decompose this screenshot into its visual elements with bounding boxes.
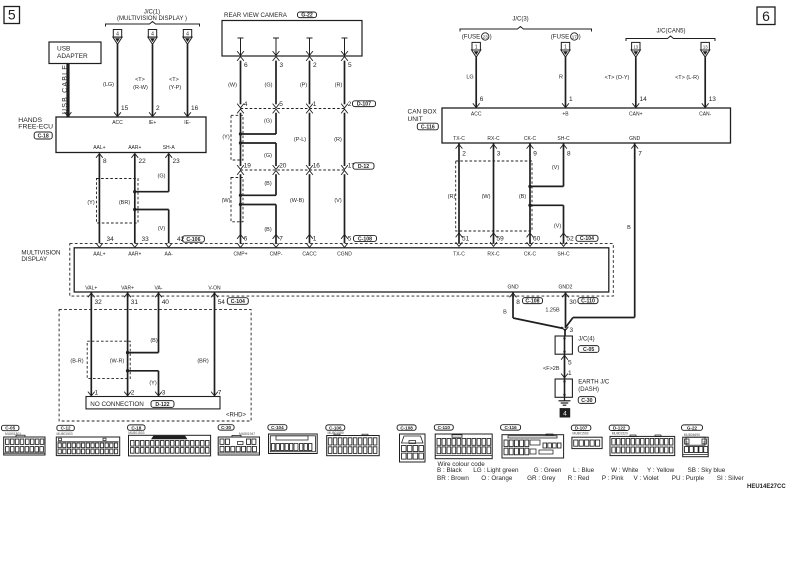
svg-text:9: 9 — [533, 151, 537, 158]
J/C(3) connector pin 1 right — [561, 42, 569, 50]
svg-text:(V): (V) — [552, 165, 560, 171]
svg-text:8: 8 — [516, 299, 520, 306]
svg-text:R : Red: R : Red — [568, 475, 590, 482]
svg-text:(G): (G) — [264, 119, 272, 125]
svg-text:C-18: C-18 — [131, 425, 141, 430]
svg-text:SI : Silver: SI : Silver — [717, 475, 744, 482]
connector C-106 detail — [326, 425, 345, 430]
svg-text:AAR+: AAR+ — [128, 251, 141, 257]
svg-text:RX-C: RX-C — [487, 136, 500, 142]
svg-text:(B): (B) — [264, 181, 272, 187]
svg-text:(FUSE: (FUSE — [462, 34, 481, 41]
svg-text:3: 3 — [162, 390, 166, 397]
svg-text:(BR): (BR) — [197, 359, 208, 365]
svg-text:1: 1 — [564, 44, 567, 50]
shield box (twisted pair) ECU — [97, 179, 139, 224]
wire V-ON (BR) — [214, 296, 216, 395]
wire CMP- (B) upper — [275, 174, 277, 195]
svg-text:C-12: C-12 — [61, 426, 71, 431]
svg-text:G : Green: G : Green — [534, 467, 562, 474]
svg-text:(R): (R) — [334, 137, 342, 143]
wire camera 2 (P) — [309, 61, 311, 105]
wire IE- <T>(Y-P) — [187, 44, 189, 116]
svg-text:31: 31 — [131, 299, 139, 306]
wire +B R — [565, 57, 567, 107]
wire CMP+ (Y) shield section — [240, 113, 242, 166]
wire CAN+ <T>(O-Y) — [635, 57, 637, 107]
svg-text:40: 40 — [162, 299, 170, 306]
camera internal pin stub x=240.5 — [240, 38, 242, 56]
wire USB cable — [66, 64, 69, 118]
svg-text:(B): (B) — [519, 194, 527, 200]
svg-text:(V): (V) — [554, 224, 562, 230]
wire GND B long — [631, 144, 638, 148]
svg-text:4: 4 — [186, 31, 189, 37]
wire TX-C (R) — [456, 144, 463, 148]
svg-text:C-18: C-18 — [38, 133, 49, 139]
wire AAL+ (Y) — [96, 154, 103, 158]
connector C-12 detail — [57, 425, 75, 430]
svg-text:CMP+: CMP+ — [233, 251, 247, 257]
camera internal pin stub x=344.5 — [344, 38, 346, 56]
svg-text:2: 2 — [703, 441, 705, 445]
connector C-18 detail — [128, 425, 146, 430]
connector C-108 detail — [397, 425, 416, 430]
bracket J/C(3) — [460, 27, 592, 32]
svg-text:AAR+: AAR+ — [128, 145, 141, 151]
wire CMP- (B) lower — [275, 205, 277, 234]
svg-text:MU804690: MU804690 — [684, 433, 700, 437]
svg-text:<F>2B: <F>2B — [543, 366, 560, 372]
svg-text:4: 4 — [563, 411, 567, 418]
svg-text:3: 3 — [570, 327, 574, 334]
svg-text:V : Violet: V : Violet — [634, 475, 659, 482]
svg-text:(W-B): (W-B) — [290, 198, 304, 204]
svg-text:5: 5 — [348, 236, 352, 243]
wire GND2 1.25B — [562, 293, 569, 297]
wire video 31 — [124, 293, 131, 297]
CAN BOX UNIT box — [442, 108, 731, 143]
svg-text:16: 16 — [313, 162, 321, 169]
svg-text:D-122: D-122 — [613, 425, 626, 430]
svg-text:6: 6 — [244, 62, 248, 69]
svg-text:19: 19 — [244, 162, 252, 169]
svg-text:O : Orange: O : Orange — [481, 475, 513, 482]
svg-text:): ) — [579, 34, 581, 41]
svg-text:): ) — [490, 34, 492, 41]
svg-text:34: 34 — [107, 236, 115, 243]
wire J/C(4) to earth <F>2B — [561, 355, 568, 359]
svg-text:SH-A: SH-A — [163, 145, 176, 151]
svg-text:4: 4 — [116, 31, 119, 37]
svg-text:4: 4 — [151, 31, 154, 37]
wire SH-A (G)(V) — [165, 154, 172, 158]
svg-text:1: 1 — [568, 370, 572, 377]
J/C(4) busbar — [555, 336, 572, 354]
wire CGND (R) — [344, 113, 346, 166]
svg-text:CK-C: CK-C — [524, 251, 537, 257]
HANDS FREE-ECU box — [56, 117, 206, 153]
svg-text:UNIT: UNIT — [408, 116, 423, 123]
svg-text:2: 2 — [131, 390, 135, 397]
svg-text:(P-L): (P-L) — [294, 137, 306, 143]
connector C-05 detail — [1, 425, 19, 430]
svg-text:C-110: C-110 — [438, 425, 451, 430]
svg-text:6: 6 — [762, 8, 770, 24]
svg-text:J/C(CAN5): J/C(CAN5) — [656, 29, 685, 35]
svg-text:CMP-: CMP- — [270, 251, 283, 257]
svg-text:5: 5 — [568, 360, 572, 367]
svg-text:P : Pink: P : Pink — [602, 475, 624, 482]
wire video 54 — [211, 293, 218, 297]
svg-text:B: B — [503, 310, 507, 316]
inline connector row D-107 — [241, 108, 345, 110]
svg-text:23: 23 — [173, 158, 181, 165]
connector G-22 detail — [682, 425, 703, 430]
svg-text:52: 52 — [567, 235, 575, 242]
wire RX-C (W) — [490, 144, 497, 148]
svg-text:B: B — [627, 225, 631, 231]
svg-text:59: 59 — [497, 235, 505, 242]
connector D-107 detail — [571, 425, 591, 430]
wire camera 5 (R) — [344, 61, 346, 105]
svg-text:VAR+: VAR+ — [121, 286, 134, 292]
svg-text:SH-C: SH-C — [557, 251, 570, 257]
wire SH-C (V) lower — [530, 204, 564, 206]
svg-text:CK-C: CK-C — [524, 136, 537, 142]
RHD dashed region — [59, 310, 251, 421]
svg-text:J/C(3): J/C(3) — [512, 16, 528, 22]
svg-text:C-104: C-104 — [580, 236, 594, 242]
svg-text:13: 13 — [633, 44, 638, 49]
svg-text:J/C(4): J/C(4) — [578, 337, 594, 343]
svg-text:C-104: C-104 — [271, 425, 284, 430]
page marker 5 — [4, 7, 20, 24]
svg-text:(W): (W) — [222, 198, 231, 204]
svg-text:D-107: D-107 — [575, 425, 588, 430]
wire CMP- (G) upper — [275, 113, 277, 134]
EARTH J/C (DASH) busbar — [555, 379, 572, 397]
svg-text:1: 1 — [686, 441, 688, 445]
svg-text:5: 5 — [348, 62, 352, 69]
svg-text:<RHD>: <RHD> — [226, 413, 247, 419]
svg-text:EARTH J/C: EARTH J/C — [578, 380, 610, 386]
svg-text:SH-C: SH-C — [557, 136, 570, 142]
svg-text:51: 51 — [462, 235, 470, 242]
wire CMP- (G) lower — [275, 143, 277, 166]
J/C(1) connector pin 4 at x=117.5 — [113, 30, 121, 38]
svg-text:7: 7 — [638, 151, 642, 158]
connector C-116 detail — [501, 425, 521, 430]
svg-text:C-104: C-104 — [231, 299, 245, 305]
svg-text:L : Blue: L : Blue — [573, 467, 595, 474]
svg-text:D-122: D-122 — [155, 402, 169, 408]
svg-text:+B: +B — [562, 112, 569, 118]
svg-text:20: 20 — [279, 162, 287, 169]
svg-text:BR : Brown: BR : Brown — [437, 475, 469, 482]
svg-text:23: 23 — [483, 34, 489, 39]
svg-text:DISPLAY: DISPLAY — [21, 256, 47, 263]
svg-text:MU801503: MU801503 — [572, 432, 588, 436]
svg-text:LG: LG — [466, 75, 473, 81]
svg-text:C-108: C-108 — [358, 236, 372, 242]
page marker 6 — [757, 7, 775, 25]
connector label C-18 — [34, 132, 52, 139]
svg-text:W : White: W : White — [611, 467, 639, 474]
svg-text:(W): (W) — [482, 194, 491, 200]
svg-text:CACC: CACC — [302, 251, 317, 257]
svg-text:13: 13 — [709, 96, 717, 103]
svg-text:GND: GND — [629, 136, 641, 142]
bracket J/C(CAN5) — [626, 36, 715, 41]
svg-text:C-110: C-110 — [581, 298, 595, 304]
svg-text:C-30: C-30 — [581, 398, 592, 404]
wire CGND (V) — [344, 174, 346, 233]
svg-text:2: 2 — [348, 101, 352, 108]
svg-text:USB: USB — [57, 46, 70, 53]
svg-text:(FUSE: (FUSE — [551, 34, 570, 41]
svg-text:GR : Grey: GR : Grey — [527, 475, 556, 482]
connector label G-22 — [298, 12, 317, 18]
svg-text:(B): (B) — [150, 338, 158, 344]
svg-text:15: 15 — [121, 105, 129, 112]
wire SH-C (V) upper — [560, 144, 567, 148]
svg-text:3: 3 — [497, 151, 501, 158]
connector D-122 detail — [609, 425, 629, 430]
svg-text:1: 1 — [95, 390, 99, 397]
wire VAL+ (B-R) — [90, 296, 92, 395]
connector row C-104 pins — [456, 233, 463, 237]
svg-text:RX-C: RX-C — [487, 251, 500, 257]
svg-text:13: 13 — [703, 44, 708, 49]
svg-text:MU801503: MU801503 — [128, 431, 144, 435]
wire camera 6 (W) — [240, 61, 242, 105]
svg-text:AAL+: AAL+ — [93, 145, 105, 151]
wire CACC (W-B) — [309, 174, 311, 233]
wire CMP+ (W) shield section — [240, 174, 242, 233]
svg-text:J/C(1): J/C(1) — [144, 10, 160, 16]
shield box RHD — [87, 341, 130, 378]
svg-text:NO CONNECTION: NO CONNECTION — [90, 401, 144, 408]
svg-text:LG : Light green: LG : Light green — [473, 467, 519, 474]
svg-text:D-12: D-12 — [358, 164, 369, 170]
svg-text:USB CABLE: USB CABLE — [62, 64, 69, 114]
svg-text:CGND: CGND — [337, 251, 352, 257]
svg-text:B : Black: B : Black — [437, 467, 463, 474]
svg-text:(BR): (BR) — [119, 200, 130, 206]
svg-text:(G): (G) — [158, 174, 166, 180]
svg-text:Y : Yellow: Y : Yellow — [647, 467, 675, 474]
svg-text:8: 8 — [567, 151, 571, 158]
svg-text:(V): (V) — [334, 198, 342, 204]
svg-text:D-107: D-107 — [357, 102, 371, 108]
svg-text:(G): (G) — [265, 83, 273, 89]
svg-text:5: 5 — [279, 101, 283, 108]
MULTIVISION DISPLAY box — [74, 248, 609, 292]
svg-text:7: 7 — [279, 236, 283, 243]
svg-text:16: 16 — [191, 105, 199, 112]
svg-text:7: 7 — [218, 390, 222, 397]
svg-text:60: 60 — [533, 235, 541, 242]
svg-text:(B): (B) — [264, 227, 272, 233]
svg-text:(Y): (Y) — [87, 200, 95, 206]
svg-text:(R): (R) — [448, 194, 456, 200]
svg-text:IE-: IE- — [184, 120, 191, 126]
svg-text:14: 14 — [640, 96, 648, 103]
svg-text:(Y): (Y) — [222, 135, 230, 141]
connector label C-116 — [417, 123, 438, 130]
svg-text:CAN+: CAN+ — [629, 112, 643, 118]
J/C(1) connector pin 4 at x=187.5 — [183, 30, 191, 38]
svg-text:MU801520: MU801520 — [612, 432, 628, 436]
svg-text:33: 33 — [142, 236, 150, 243]
svg-text:AA-: AA- — [165, 251, 174, 257]
svg-text:<T>: <T> — [135, 77, 145, 83]
J/C(1) connector pin 4 at x=152.5 — [148, 30, 156, 38]
svg-text:C-108: C-108 — [525, 298, 539, 304]
svg-text:1: 1 — [313, 101, 317, 108]
wire VAR+ (W-R) — [127, 296, 129, 395]
svg-text:<T> (L-R): <T> (L-R) — [675, 75, 699, 81]
svg-text:IE+: IE+ — [149, 120, 157, 126]
svg-text:C-116: C-116 — [504, 425, 517, 430]
svg-text:ACC: ACC — [112, 120, 123, 126]
wire CK-C (B) — [527, 144, 534, 148]
J/C(3) connector pin 1 left — [472, 42, 480, 50]
inline connector row D-12 — [241, 169, 345, 171]
svg-text:C-106: C-106 — [329, 425, 342, 430]
svg-text:1.25B: 1.25B — [545, 308, 560, 314]
svg-text:6: 6 — [244, 236, 248, 243]
svg-text:(W-R): (W-R) — [110, 359, 125, 365]
svg-text:22: 22 — [139, 158, 147, 165]
svg-text:54: 54 — [218, 299, 226, 306]
svg-text:(B-R): (B-R) — [70, 359, 83, 365]
svg-text:MU801947: MU801947 — [239, 432, 255, 436]
svg-text:MU801503: MU801503 — [57, 432, 73, 436]
svg-text:5: 5 — [8, 7, 16, 23]
wire CACC (P-L) — [309, 113, 311, 166]
svg-text:CAN-: CAN- — [699, 112, 712, 118]
camera internal pin stub x=276 — [275, 38, 277, 56]
svg-text:C-108: C-108 — [400, 425, 413, 430]
connector C-30 detail — [218, 425, 234, 430]
svg-text:6: 6 — [480, 96, 484, 103]
svg-text:30: 30 — [569, 299, 577, 306]
svg-text:32: 32 — [95, 299, 103, 306]
svg-text:FREE-ECU: FREE-ECU — [18, 124, 53, 131]
wire VA- (B) upper — [158, 296, 160, 353]
svg-text:G-22: G-22 — [301, 13, 313, 19]
svg-text:(MULTIVISION DISPLAY ): (MULTIVISION DISPLAY ) — [117, 16, 187, 22]
USB ADAPTER — [49, 42, 101, 64]
svg-text:C-05: C-05 — [5, 426, 15, 431]
svg-text:(R-W): (R-W) — [133, 85, 148, 91]
wire AAR+ (BR) — [131, 154, 138, 158]
svg-text:2: 2 — [313, 62, 317, 69]
svg-text:3: 3 — [280, 62, 284, 69]
svg-text:CAN BOX: CAN BOX — [408, 109, 438, 116]
svg-text:(V): (V) — [158, 226, 166, 232]
shield box camera upper — [231, 115, 243, 160]
svg-text:1: 1 — [569, 96, 573, 103]
ground symbol — [564, 397, 566, 401]
svg-text:(Y-P): (Y-P) — [169, 85, 181, 91]
svg-text:REAR VIEW CAMERA: REAR VIEW CAMERA — [224, 12, 288, 19]
connector row C-108 into display — [237, 235, 244, 239]
svg-text:GND: GND — [507, 285, 519, 291]
connector label C-106 — [182, 236, 204, 242]
svg-text:AAL+: AAL+ — [93, 251, 105, 257]
connector C-104 detail — [268, 425, 287, 430]
svg-text:2: 2 — [462, 151, 466, 158]
wire camera 3 (G) — [275, 61, 277, 105]
svg-text:ACC: ACC — [471, 112, 482, 118]
camera connector mark x=240.5 — [237, 51, 244, 55]
wire video 40 — [155, 293, 162, 297]
svg-text:<T> (O-Y): <T> (O-Y) — [605, 75, 630, 81]
camera internal pin stub x=309.5 — [309, 38, 311, 56]
J/C(CAN5) connector pin 13 right — [701, 42, 709, 50]
svg-text:<T>: <T> — [169, 77, 179, 83]
wire CAN- <T>(L-R) — [704, 57, 706, 107]
MULTIVISION DISPLAY dashed outline — [70, 244, 614, 297]
camera connector mark x=344.5 — [341, 51, 348, 55]
svg-text:(R): (R) — [335, 83, 343, 89]
svg-text:G-22: G-22 — [687, 425, 698, 430]
svg-text:C-106: C-106 — [186, 237, 200, 243]
wire ACC LG — [475, 57, 477, 107]
svg-text:(DASH): (DASH) — [578, 387, 599, 393]
svg-text:VA-: VA- — [155, 286, 163, 292]
bracket J/C(1) — [106, 22, 200, 27]
svg-text:17: 17 — [572, 34, 578, 39]
svg-text:PU : Purple: PU : Purple — [672, 475, 705, 482]
svg-text:(Y): (Y) — [149, 381, 157, 387]
svg-text:1: 1 — [475, 44, 478, 50]
camera connector mark x=276 — [273, 51, 280, 55]
wire ACC (LG) — [117, 44, 119, 116]
wire IE+ <T>(R-W) — [152, 44, 154, 116]
svg-text:TX-C: TX-C — [453, 136, 465, 142]
svg-text:(W): (W) — [228, 83, 237, 89]
svg-text:V-ON: V-ON — [208, 286, 221, 292]
svg-text:1: 1 — [313, 236, 317, 243]
shield box CAN — [456, 161, 532, 231]
svg-text:ADAPTER: ADAPTER — [57, 53, 88, 60]
svg-text:HEU14E27CC: HEU14E27CC — [747, 484, 786, 490]
svg-text:(G): (G) — [264, 153, 272, 159]
svg-text:SB : Sky blue: SB : Sky blue — [688, 467, 726, 474]
camera connector mark x=309.5 — [306, 51, 313, 55]
wire VA- (Y) lower — [128, 370, 159, 372]
svg-text:R: R — [559, 75, 563, 81]
svg-text:8: 8 — [103, 158, 107, 165]
svg-text:GND2: GND2 — [559, 285, 573, 291]
svg-text:4: 4 — [244, 101, 248, 108]
svg-text:C-05: C-05 — [583, 347, 594, 353]
svg-text:C-116: C-116 — [421, 124, 435, 130]
wire GND B — [510, 293, 517, 297]
svg-text:C-30: C-30 — [221, 425, 231, 430]
shield box camera lower — [231, 178, 243, 222]
terminal at HANDS FREE-ECU pin USB — [65, 112, 72, 116]
svg-text:(P): (P) — [300, 83, 308, 89]
wire video 32 — [88, 293, 95, 297]
svg-text:(LG): (LG) — [103, 82, 114, 88]
J/C(CAN5) connector pin 13 left — [632, 42, 640, 50]
earth point marker 4 — [560, 409, 570, 418]
